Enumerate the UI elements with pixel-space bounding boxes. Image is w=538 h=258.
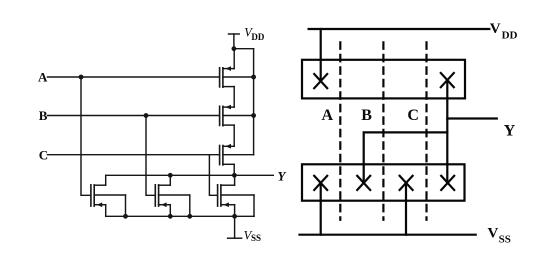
wire Q6 bulk to bus	[253, 195, 255, 216]
poly gate line B (dashed)	[382, 42, 384, 220]
contact X p-diff to Y	[441, 73, 454, 87]
wire NMOS source bus	[106, 215, 254, 217]
svg-text:DD: DD	[251, 32, 264, 42]
wire B to Q5 gate	[146, 116, 155, 196]
node A gate junction	[79, 75, 84, 80]
svg-text:V: V	[490, 21, 501, 37]
wire Q6 drain to Y	[234, 175, 236, 185]
power VSS symbol (left schematic)	[228, 216, 261, 243]
transistor Q5 NMOS (gate B)	[155, 185, 190, 207]
node Q6 source / VSS stem	[232, 214, 237, 219]
wire input B	[48, 115, 219, 117]
node Q5 bulk / bus	[187, 214, 192, 219]
wire VDD to p-diffusion contact	[320, 29, 322, 80]
transistor Q4 NMOS (gate A)	[91, 185, 126, 207]
svg-text:A: A	[38, 70, 48, 85]
svg-text:DD: DD	[502, 30, 518, 42]
wire VDD node to n-well bulk rail	[234, 48, 254, 50]
contact X n-diff 4 (to Y)	[441, 176, 454, 190]
node Y / Q5 drain	[168, 173, 173, 178]
node B gate junction	[144, 113, 149, 118]
wire Q5 bulk to bus	[189, 195, 191, 216]
svg-text:SS: SS	[499, 234, 511, 246]
transistor Q2 PMOS (gate B)	[220, 105, 254, 126]
contact X VDD to p-diff	[314, 74, 327, 88]
wire Y output stub	[447, 117, 497, 119]
svg-text:V: V	[488, 225, 499, 241]
svg-text:SS: SS	[251, 233, 261, 243]
wire PMOS bulk rail	[253, 49, 255, 155]
contact X n-diff 2 (to Y)	[357, 176, 370, 190]
svg-text:Y: Y	[504, 122, 516, 139]
wire Q5 source to bus	[169, 205, 171, 217]
svg-text:B: B	[361, 107, 372, 124]
svg-text:A: A	[322, 107, 334, 124]
wire VSS rail (layout)	[300, 234, 476, 236]
wire Q5 drain to Y	[169, 175, 171, 185]
svg-text:C: C	[407, 107, 419, 124]
transistor Q6 NMOS (gate C)	[218, 185, 254, 207]
input label A	[38, 70, 48, 85]
poly gate line C (dashed)	[425, 42, 427, 220]
wire Q1 source to VDD node	[233, 49, 235, 69]
label Y output (left schematic)	[278, 169, 287, 184]
input label B	[39, 108, 48, 123]
label Y (layout)	[504, 122, 516, 139]
wire C to Q6 gate	[209, 155, 217, 196]
label VSS (layout)	[488, 225, 511, 245]
node Q4 bulk / bus	[123, 214, 128, 219]
wire A to Q4 gate	[81, 77, 90, 195]
transistor Q3 PMOS (gate C)	[220, 144, 254, 165]
wire Q1 drain to Q2 source	[233, 87, 235, 108]
node VDD / Q1 source junction	[232, 46, 237, 51]
node Q2 bulk to rail	[251, 113, 256, 118]
label VDD (layout)	[490, 21, 518, 41]
wire Q6 source to bus	[234, 205, 236, 217]
p-diffusion region	[302, 60, 465, 99]
input label C	[39, 148, 48, 163]
transistor Q1 PMOS (gate A)	[220, 66, 254, 87]
node Q5 source / bus	[168, 214, 173, 219]
wire Q4 drain to Y	[105, 175, 107, 185]
wire Q2 drain to Q3 source	[233, 125, 235, 146]
label C (layout)	[407, 107, 419, 124]
wire Q4 source to bus	[105, 205, 107, 217]
contact X n-diff 1 (to VSS)	[314, 176, 327, 190]
svg-text:Y: Y	[278, 169, 287, 184]
wire Y interconnect to n-diff contact 2	[364, 132, 448, 182]
label B (layout)	[361, 107, 372, 124]
wire n-diff contact 1 to VSS rail	[320, 183, 322, 235]
power VDD symbol (left schematic)	[229, 26, 265, 49]
wire input C	[48, 154, 219, 156]
wire Y from p-diff contact down to n-diff contact 4	[446, 80, 448, 183]
poly gate line A (dashed)	[339, 42, 341, 220]
contact X n-diff 3 (to VSS)	[400, 176, 413, 190]
node Q1 bulk to rail	[251, 75, 256, 80]
label A (layout)	[322, 107, 334, 124]
wire n-diff contact 3 to VSS rail	[405, 183, 407, 235]
wire Q3 drain to output node	[233, 164, 235, 175]
wire VDD rail (layout)	[309, 28, 490, 30]
svg-text:B: B	[39, 108, 48, 123]
n-diffusion region	[302, 164, 465, 200]
node Y / Q3 Q6 drains	[232, 173, 237, 178]
wire input A	[48, 76, 219, 78]
wire output Y	[106, 174, 274, 176]
wire Q4 bulk to source bus	[125, 195, 127, 216]
